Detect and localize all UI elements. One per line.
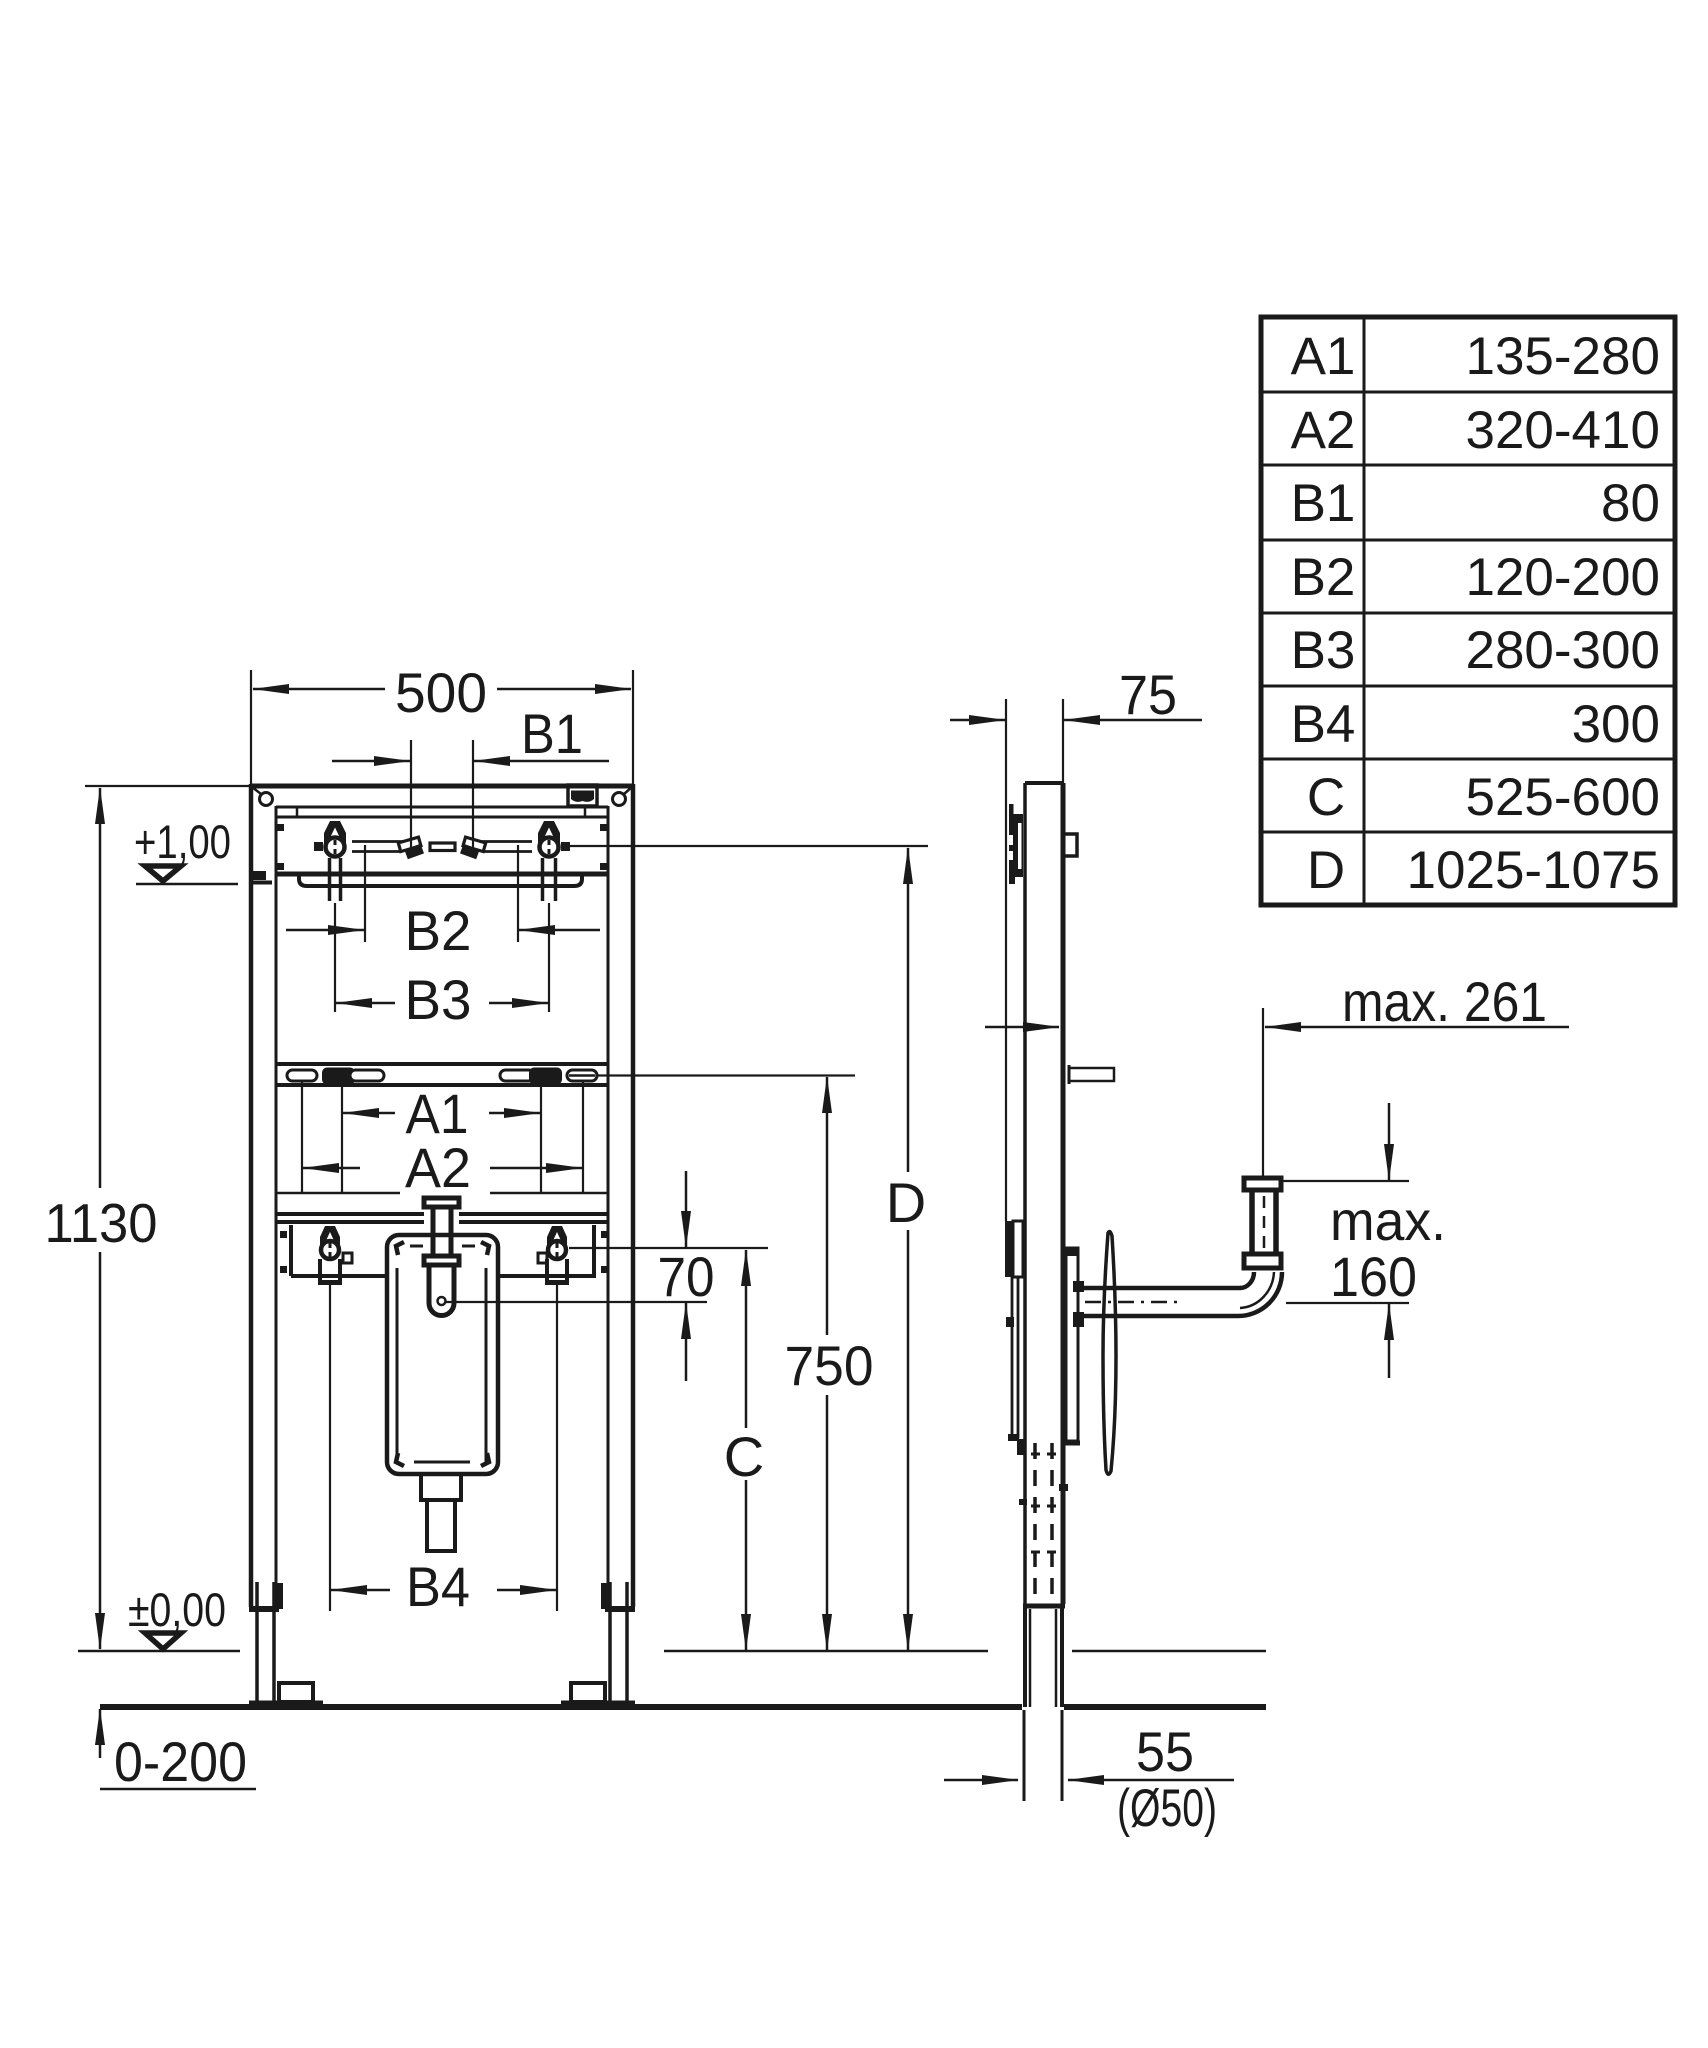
svg-text:D: D [886,1171,926,1234]
svg-text:+1,00: +1,00 [134,815,231,868]
svg-text:A2: A2 [405,1136,471,1199]
svg-text:0-200: 0-200 [114,1730,247,1793]
svg-text:75: 75 [1119,663,1177,726]
svg-text:160: 160 [1330,1245,1417,1308]
svg-text:max. 261: max. 261 [1342,970,1547,1033]
svg-text:300: 300 [1572,695,1660,754]
svg-text:55: 55 [1136,1720,1194,1783]
svg-text:B2: B2 [405,899,472,962]
svg-text:1025-1075: 1025-1075 [1407,841,1660,900]
svg-text:B3: B3 [405,968,472,1031]
svg-text:A2: A2 [1291,401,1356,460]
svg-text:120-200: 120-200 [1465,548,1660,607]
svg-text:C: C [724,1425,764,1488]
svg-text:135-280: 135-280 [1465,327,1660,386]
svg-text:500: 500 [395,661,487,724]
svg-text:750: 750 [785,1334,874,1397]
svg-text:±0,00: ±0,00 [128,1583,226,1636]
svg-text:B1: B1 [521,702,583,765]
svg-text:B1: B1 [1291,474,1356,533]
svg-text:C: C [1307,768,1345,827]
svg-text:70: 70 [658,1245,715,1308]
svg-text:525-600: 525-600 [1465,768,1660,827]
svg-text:B3: B3 [1291,621,1356,680]
svg-text:80: 80 [1601,474,1660,533]
svg-text:B2: B2 [1291,548,1356,607]
svg-text:A1: A1 [1291,327,1356,386]
svg-text:280-300: 280-300 [1465,621,1660,680]
svg-text:B4: B4 [1291,695,1356,754]
svg-text:max.: max. [1330,1189,1446,1252]
svg-text:B4: B4 [406,1555,470,1618]
svg-text:1130: 1130 [45,1192,158,1254]
svg-text:320-410: 320-410 [1465,401,1660,460]
svg-text:D: D [1307,841,1345,900]
svg-text:(Ø50): (Ø50) [1117,1779,1217,1838]
